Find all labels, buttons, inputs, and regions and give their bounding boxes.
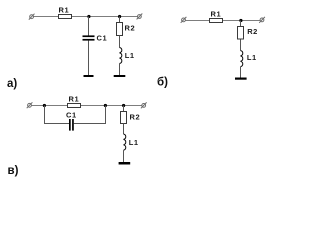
svg-text:L1: L1 <box>129 138 139 147</box>
svg-text:R2: R2 <box>125 24 136 33</box>
svg-text:C1: C1 <box>97 34 108 43</box>
svg-text:R1: R1 <box>59 6 70 15</box>
svg-text:в): в) <box>8 165 19 177</box>
svg-text:R2: R2 <box>247 27 258 36</box>
svg-text:R2: R2 <box>130 113 141 122</box>
svg-text:L1: L1 <box>247 53 257 62</box>
svg-text:C1: C1 <box>66 110 77 119</box>
svg-text:б): б) <box>157 76 168 88</box>
svg-text:L1: L1 <box>125 51 135 60</box>
svg-text:а): а) <box>7 78 17 90</box>
svg-text:R1: R1 <box>211 10 222 19</box>
svg-text:R1: R1 <box>69 95 80 104</box>
